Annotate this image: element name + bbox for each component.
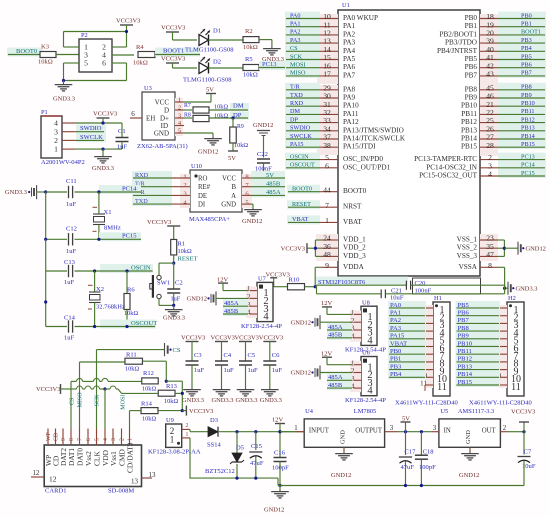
- net label PB9 at H2: [456, 332, 501, 341]
- svg-text:C6: C6: [272, 352, 280, 359]
- U3 pin 6 stub: [130, 117, 142, 119]
- U1 pin 5 (OSC_IN/PD0): [285, 153, 320, 162]
- capacitor C14: [68, 320, 70, 332]
- svg-text:47uF: 47uF: [250, 460, 264, 467]
- wire gnd rail vertical: [504, 285, 506, 294]
- svg-text:C17: C17: [405, 448, 417, 455]
- svg-text:SD-008M: SD-008M: [108, 487, 134, 494]
- svg-text:7: 7: [325, 201, 329, 210]
- wire U9 pin2 to D3: [189, 429, 191, 431]
- pink halo right pin column: [480, 14, 498, 87]
- svg-text:1uF: 1uF: [66, 201, 77, 208]
- svg-text:10kΩ: 10kΩ: [214, 103, 228, 110]
- U4 gnd pin2 down: [343, 447, 345, 452]
- svg-text:PA8: PA8: [343, 85, 356, 93]
- ground GND3.3 under P1: [102, 149, 104, 155]
- svg-text:C3: C3: [194, 352, 202, 359]
- svg-text:10kΩ: 10kΩ: [243, 72, 258, 79]
- U1 pin 37 (PA14/JTCK/SWCLK): [285, 132, 320, 141]
- svg-text:VCC3V3: VCC3V3: [161, 56, 185, 63]
- svg-text:47: 47: [486, 250, 494, 259]
- svg-text:GND3.3: GND3.3: [5, 189, 27, 196]
- net label PA3 at H1: [388, 324, 426, 333]
- svg-text:SWDIO: SWDIO: [290, 125, 311, 132]
- ground GND12 bottom middle: [279, 490, 281, 492]
- svg-text:C18: C18: [423, 448, 435, 455]
- power GND3.3 at VSSA: [507, 282, 509, 295]
- svg-text:R10: R10: [289, 277, 301, 284]
- net label RXD at U10: [132, 171, 172, 180]
- svg-text:U6: U6: [362, 350, 370, 357]
- svg-text:4: 4: [367, 335, 373, 346]
- svg-text:3: 3: [433, 425, 437, 432]
- net label PA15 at H1: [388, 332, 426, 341]
- svg-text:5V: 5V: [228, 155, 236, 162]
- svg-text:PB0: PB0: [465, 14, 478, 22]
- svg-text:4: 4: [54, 119, 58, 128]
- svg-text:PB15: PB15: [521, 141, 535, 148]
- net label PB11 at H2: [456, 347, 501, 356]
- svg-text:GND3.3: GND3.3: [182, 397, 204, 404]
- connector U3 body ZX62-AB-5PA: [142, 92, 175, 140]
- svg-text:10kΩ: 10kΩ: [133, 60, 148, 67]
- net label PB13 at H2: [456, 363, 501, 372]
- resistor R4: [138, 52, 155, 58]
- svg-text:GND12: GND12: [187, 296, 207, 303]
- net CS power bar: [97, 349, 165, 351]
- svg-text:9: 9: [61, 438, 67, 441]
- svg-text:1uF: 1uF: [248, 367, 259, 374]
- svg-text:ZX62-AB-5PA(31): ZX62-AB-5PA(31): [137, 143, 188, 150]
- power 5V at U4 out: [404, 430, 407, 433]
- wire R5 to PC13: [259, 61, 285, 70]
- U1 pin 34 (PA13/JTMS/SWDIO): [285, 124, 320, 133]
- U1 pin 6 (OSC_OUT/PD1): [285, 161, 320, 170]
- LED D2: [199, 63, 209, 74]
- svg-text:VCC3V3: VCC3V3: [161, 25, 185, 32]
- net label 485A at U7: [223, 299, 248, 308]
- svg-text:U4: U4: [305, 408, 314, 415]
- svg-text:PA15: PA15: [390, 333, 405, 340]
- ground GND12 under U3: [212, 137, 214, 139]
- svg-text:PC13: PC13: [521, 153, 535, 160]
- svg-text:X4611WY-11I-C28D40: X4611WY-11I-C28D40: [395, 400, 459, 407]
- capacitor C1: [121, 123, 123, 138]
- resistor R2: [243, 37, 259, 43]
- U1 pin 11 (PA1): [285, 20, 320, 29]
- svg-text:PB11: PB11: [458, 348, 472, 355]
- svg-text:GND: GND: [340, 430, 347, 444]
- svg-text:C11: C11: [66, 178, 77, 185]
- svg-text:VDD_1: VDD_1: [343, 236, 366, 244]
- svg-text:5: 5: [95, 438, 101, 441]
- svg-text:485B: 485B: [328, 382, 343, 389]
- svg-text:GND3.3: GND3.3: [516, 285, 538, 292]
- svg-text:DI: DI: [198, 202, 206, 209]
- U1 pin 31 (PA10): [285, 99, 320, 108]
- terminal U9 body KF128-3.08-2P: [166, 424, 182, 447]
- svg-text:48: 48: [323, 250, 331, 259]
- wire R14 left to MOSI rise: [129, 411, 131, 429]
- svg-text:GND3.3: GND3.3: [163, 315, 185, 322]
- svg-text:GND3.3: GND3.3: [236, 397, 258, 404]
- U1 pin 3 (PC14-OSC32_IN): [498, 161, 546, 170]
- wire D2 to R5: [209, 67, 244, 69]
- svg-text:C13: C13: [64, 259, 76, 266]
- net label 485A at U8: [327, 323, 352, 332]
- wire BOOT0: [8, 54, 40, 56]
- wire K3 to P2: [56, 54, 79, 56]
- svg-text:VCC3V3: VCC3V3: [93, 111, 117, 118]
- wire to gnd: [159, 304, 174, 306]
- wire to rail split: [315, 286, 316, 288]
- svg-text:OSCIN: OSCIN: [290, 153, 309, 160]
- svg-text:10kΩ: 10kΩ: [38, 59, 53, 66]
- svg-text:SCK: SCK: [290, 53, 303, 60]
- crystal X1: [98, 192, 100, 214]
- wire D1 to R2: [209, 39, 244, 41]
- wire U3 D to R7: [184, 109, 192, 111]
- U1 pin 46 (PB9): [498, 91, 546, 100]
- svg-text:12V: 12V: [321, 300, 332, 307]
- svg-text:PB8: PB8: [465, 85, 478, 93]
- U1 pin 19 (PB1): [498, 20, 546, 29]
- svg-text:PB0: PB0: [521, 12, 532, 19]
- svg-text:GND12: GND12: [264, 507, 284, 514]
- U1 VDD_1 VDD_2 VDD_3 pins 24/36/48: [316, 234, 338, 261]
- svg-text:VCC: VCC: [222, 175, 236, 182]
- SD top pin stubs: [47, 429, 49, 446]
- resistor K3: [40, 52, 56, 58]
- wire jog down to R13 row: [118, 389, 122, 393]
- U1 pin 15 (PA5): [285, 53, 320, 62]
- ground GND3.3 right of R2: [271, 47, 273, 49]
- svg-text:C16: C16: [274, 449, 286, 456]
- svg-text:2: 2: [178, 104, 181, 111]
- svg-text:PA15: PA15: [290, 141, 304, 148]
- wire P2 pin5 to GND loop: [64, 62, 80, 64]
- svg-text:PB9: PB9: [458, 333, 469, 340]
- svg-text:12V: 12V: [321, 350, 332, 357]
- svg-text:1uF: 1uF: [64, 335, 75, 342]
- header H2 body: [507, 302, 524, 396]
- left rail to C13: [45, 239, 47, 271]
- svg-text:VCC3V3: VCC3V3: [511, 409, 535, 416]
- svg-text:PA2: PA2: [290, 29, 300, 36]
- wire R12 left to CS rise: [70, 381, 72, 428]
- svg-text:EH: EH: [146, 114, 155, 122]
- svg-text:PB12: PB12: [461, 118, 477, 126]
- power VCC3V3 at R14: [185, 406, 187, 416]
- svg-text:PB12: PB12: [521, 116, 535, 123]
- svg-text:TLMG1100-GS08: TLMG1100-GS08: [183, 77, 232, 84]
- svg-text:KF128-2.54-4P: KF128-2.54-4P: [241, 323, 282, 330]
- svg-text:GND12: GND12: [253, 122, 273, 129]
- wire P2 pin4 to R4: [112, 54, 134, 56]
- svg-text:PB10: PB10: [458, 340, 473, 347]
- svg-text:R2: R2: [245, 28, 253, 35]
- svg-text:C15: C15: [251, 443, 263, 450]
- svg-text:X1: X1: [104, 209, 112, 216]
- U4 pin3: [385, 431, 398, 433]
- svg-text:32.768kHz: 32.768kHz: [96, 304, 125, 311]
- svg-text:1: 1: [54, 145, 58, 154]
- U10 right pins: [242, 174, 252, 208]
- svg-text:485A: 485A: [328, 374, 343, 381]
- U1 pin 12 (PA2): [285, 28, 320, 37]
- diode D3 SS14: [208, 427, 218, 437]
- svg-text:P2: P2: [81, 32, 88, 39]
- net label 485B at U6: [327, 381, 352, 390]
- svg-text:PA6: PA6: [343, 63, 356, 71]
- wire C11 to PC14: [99, 185, 141, 194]
- net label 485B at U8: [327, 331, 352, 340]
- wire VDDA rail A: [317, 284, 407, 286]
- svg-text:11: 11: [420, 379, 427, 388]
- svg-text:RXD: RXD: [135, 172, 149, 179]
- svg-text:RO: RO: [198, 175, 208, 182]
- svg-text:PB4: PB4: [390, 371, 402, 378]
- power GND12 at U7: [207, 297, 209, 299]
- wire U10 VCC to 5V: [251, 171, 285, 180]
- svg-text:C12: C12: [66, 226, 77, 233]
- svg-text:VSSA: VSSA: [459, 263, 478, 271]
- regulator U5 AMS1117-3.3 body: [439, 419, 501, 447]
- svg-text:12: 12: [33, 469, 41, 477]
- svg-text:U5: U5: [440, 408, 448, 415]
- U1 pin 16 (PA6): [285, 61, 320, 70]
- svg-text:1uF: 1uF: [66, 248, 77, 255]
- svg-text:B: B: [231, 184, 236, 191]
- wire U9 pin1 down to rail: [189, 438, 191, 478]
- svg-text:RXD: RXD: [290, 100, 304, 107]
- svg-text:VCC3V3: VCC3V3: [181, 334, 205, 341]
- svg-text:A2001WV-04P2: A2001WV-04P2: [41, 159, 85, 166]
- svg-text:GND: GND: [221, 202, 236, 209]
- regulator U4 LM7805 body: [304, 419, 384, 447]
- wire P2 pin1 loop to VCC3V3: [64, 46, 80, 48]
- svg-text:PA0 WKUP: PA0 WKUP: [343, 14, 378, 22]
- svg-text:PA2: PA2: [390, 317, 401, 324]
- svg-text:2: 2: [54, 136, 58, 145]
- U5 pin3: [432, 431, 439, 433]
- resistor R6: [126, 271, 128, 294]
- svg-text:SWCLK: SWCLK: [290, 133, 312, 140]
- svg-text:GND3.3: GND3.3: [92, 165, 114, 172]
- svg-text:PA15/JTDI: PA15/JTDI: [343, 143, 376, 151]
- svg-text:4: 4: [103, 438, 109, 441]
- svg-text:VSS_2: VSS_2: [457, 244, 478, 252]
- svg-text:R7: R7: [184, 103, 191, 109]
- junction R11/R12: [165, 380, 168, 383]
- svg-text:PB10: PB10: [461, 102, 477, 110]
- svg-text:485A: 485A: [328, 324, 343, 331]
- svg-text:8: 8: [69, 438, 75, 441]
- net label PA1 at H1: [388, 309, 426, 318]
- svg-text:MOSI: MOSI: [290, 62, 305, 69]
- svg-text:PA14/JTCK/SWCLK: PA14/JTCK/SWCLK: [343, 135, 406, 143]
- svg-text:PB12: PB12: [458, 356, 473, 363]
- U1 pin 20 (PB2/BOOT1): [498, 28, 546, 37]
- svg-text:U10: U10: [191, 163, 202, 170]
- net label PB14 at H2: [456, 370, 501, 379]
- capacitor C16: [278, 430, 281, 433]
- svg-text:4: 4: [367, 386, 373, 397]
- svg-text:X2: X2: [96, 286, 104, 293]
- terminal U8 body: [361, 306, 377, 345]
- svg-text:DM: DM: [290, 108, 300, 115]
- svg-text:PA9: PA9: [343, 94, 356, 102]
- U1 pin 2 (PC13-TAMPER-RTC): [498, 153, 546, 162]
- H1 pin stubs: [425, 305, 433, 388]
- svg-text:C5: C5: [248, 352, 256, 359]
- switch SW1: [157, 275, 161, 279]
- svg-text:VCC3V3: VCC3V3: [259, 334, 283, 341]
- svg-text:DM: DM: [233, 103, 244, 110]
- svg-text:GND12: GND12: [291, 319, 311, 326]
- svg-text:2: 2: [186, 423, 189, 429]
- svg-text:KF128-3.08-2P-AA: KF128-3.08-2P-AA: [148, 448, 201, 455]
- wire C11 row: [46, 191, 67, 193]
- net label PB7 at H2: [456, 316, 501, 325]
- wire VDDA rail B: [317, 293, 382, 295]
- svg-text:R14: R14: [141, 401, 153, 408]
- svg-text:PB14: PB14: [521, 133, 535, 140]
- wire rail B to GND3.3: [385, 293, 504, 295]
- svg-text:PA0: PA0: [290, 12, 300, 19]
- svg-text:PC14: PC14: [521, 162, 535, 169]
- svg-text:U7: U7: [258, 276, 267, 283]
- svg-text:13: 13: [131, 478, 139, 486]
- svg-text:4: 4: [263, 312, 269, 323]
- svg-text:10kΩ: 10kΩ: [125, 366, 139, 373]
- svg-text:U1: U1: [342, 2, 350, 9]
- svg-text:KF128-2.54-4P: KF128-2.54-4P: [345, 397, 386, 404]
- svg-text:PA1: PA1: [390, 310, 401, 317]
- net label VBAT at H1: [388, 340, 426, 349]
- svg-text:D1: D1: [213, 28, 221, 35]
- net label SWCLK: [76, 133, 106, 142]
- U6 pin stubs: [350, 361, 361, 392]
- terminal U6 body: [361, 357, 377, 396]
- svg-text:IN: IN: [444, 427, 451, 434]
- svg-text:PB3/JTDO: PB3/JTDO: [445, 39, 477, 47]
- svg-text:6: 6: [86, 438, 92, 441]
- svg-text:PB11: PB11: [461, 110, 477, 118]
- wire rail to GND12: [279, 486, 281, 491]
- wire P2 pin2 to VCC loop: [112, 46, 127, 48]
- C20 value box: [413, 278, 481, 294]
- svg-text:3: 3: [390, 425, 394, 432]
- svg-text:3: 3: [111, 438, 117, 441]
- wire R11 right: [143, 360, 167, 362]
- svg-text:PB4: PB4: [521, 45, 532, 52]
- resistor R7: [193, 107, 209, 113]
- svg-text:U3: U3: [144, 85, 152, 92]
- svg-text:R13: R13: [166, 383, 178, 390]
- svg-text:PC13-TAMPER-RTC: PC13-TAMPER-RTC: [414, 155, 477, 163]
- svg-text:1: 1: [170, 435, 175, 445]
- U1 pin 43 (PB7): [498, 69, 546, 78]
- ground GND12 under U10: [252, 208, 254, 210]
- H2 pin stubs: [499, 305, 507, 388]
- svg-text:DE: DE: [198, 193, 207, 200]
- wire P2 pin6 loop: [112, 62, 127, 64]
- svg-text:GND3.3: GND3.3: [53, 96, 75, 103]
- svg-text:BZT52C12: BZT52C12: [205, 468, 235, 475]
- wire D3 to 12V node: [219, 431, 304, 433]
- wire SCK rise to CS bar: [96, 350, 98, 429]
- ground GND3.3 under SW1: [173, 308, 175, 310]
- connector P2 body: [79, 39, 112, 72]
- svg-text:PB14: PB14: [458, 371, 473, 378]
- wire C14 row OSCOUT: [46, 326, 67, 328]
- capacitor C15: [254, 430, 257, 433]
- svg-text:OSCOUT: OSCOUT: [290, 162, 315, 169]
- svg-text:R6: R6: [127, 287, 135, 294]
- wire U10 GND down: [251, 203, 253, 205]
- svg-text:1uF: 1uF: [171, 296, 181, 303]
- svg-text:PB8: PB8: [521, 84, 532, 91]
- svg-text:10kΩ: 10kΩ: [243, 44, 258, 51]
- svg-text:10kΩ: 10kΩ: [142, 386, 156, 393]
- U1 pin 25 (PB12): [498, 116, 546, 125]
- svg-text:U9: U9: [166, 417, 174, 424]
- resistor R10: [274, 286, 287, 288]
- capacitor C12: [68, 233, 70, 245]
- svg-text:OSC_OUT/PD1: OSC_OUT/PD1: [343, 163, 391, 171]
- svg-text:MISO: MISO: [290, 70, 306, 77]
- svg-text:PB1: PB1: [521, 21, 532, 28]
- svg-text:PB10: PB10: [521, 100, 535, 107]
- svg-text:1: 1: [351, 309, 355, 317]
- capacitor C20: [405, 281, 407, 290]
- svg-text:VCC3V3: VCC3V3: [189, 408, 213, 415]
- svg-text:4: 4: [488, 170, 492, 179]
- svg-text:TXD: TXD: [290, 92, 303, 99]
- wire C13 row: [46, 270, 67, 272]
- svg-text:PB15: PB15: [458, 379, 473, 386]
- svg-text:BOOT0: BOOT0: [292, 186, 312, 193]
- svg-text:BOOT1: BOOT1: [163, 48, 184, 55]
- svg-text:H1: H1: [434, 295, 442, 302]
- net label T/R at U10: [132, 188, 172, 197]
- svg-text:PC15-OSC32_OUT: PC15-OSC32_OUT: [419, 172, 478, 180]
- wire R2 to gnd: [259, 39, 272, 41]
- svg-text:C2: C2: [175, 280, 183, 287]
- svg-text:GND12: GND12: [242, 218, 262, 225]
- net label PB6 at H2: [456, 309, 501, 318]
- svg-text:INPUT: INPUT: [309, 427, 330, 434]
- capacitor C13: [68, 265, 70, 277]
- svg-text:3: 3: [54, 127, 58, 136]
- svg-text:OUT: OUT: [482, 427, 497, 434]
- bottom rail left: [189, 477, 278, 479]
- svg-text:CARD1: CARD1: [45, 487, 66, 494]
- net label PB4 at H1: [388, 370, 426, 379]
- svg-text:R12: R12: [143, 370, 154, 377]
- svg-text:10kΩ: 10kΩ: [178, 248, 192, 255]
- resistor R9: [232, 118, 234, 127]
- svg-text:17: 17: [323, 70, 331, 79]
- U1 pin 33 (PA12): [285, 116, 320, 125]
- U1 pin 26 (PB13): [498, 124, 546, 133]
- SD pin 12 left: [31, 476, 44, 478]
- U7 pin stubs: [246, 287, 257, 318]
- crystal X2: [94, 271, 96, 292]
- svg-text:1uF: 1uF: [272, 367, 283, 374]
- power 5V under R9: [228, 150, 238, 152]
